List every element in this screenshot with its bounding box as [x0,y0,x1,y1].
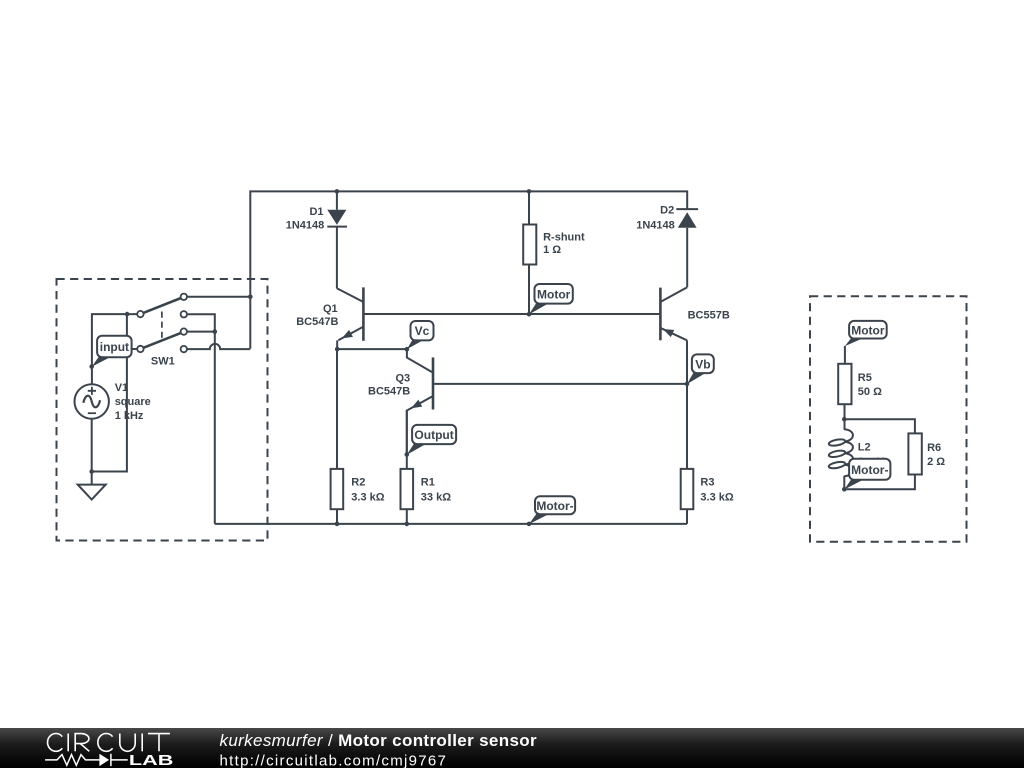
svg-text:D1: D1 [309,206,323,218]
wire R6 bottom to Motor- node [844,475,915,490]
node throw3 junction [213,329,218,334]
node Output [405,452,410,457]
wire D1 cathode to Q1 collector [336,227,338,289]
wire Q3 emitter to Output node to R1 [406,410,408,469]
svg-text:Motor: Motor [537,287,571,301]
wire Q2 emitter to Vb node [686,340,688,384]
svg-text:1 Ω: 1 Ω [543,244,561,256]
node R1 bottom [405,522,410,527]
diode D1 [327,210,347,227]
wire Vc node to R2 [336,349,338,469]
svg-text:R-shunt: R-shunt [543,231,585,243]
svg-text:1N4148: 1N4148 [286,219,325,231]
dashed enclosure right (motor model) [810,296,967,541]
resistor R5 [838,364,851,404]
flag Output [407,425,456,455]
node throw1 riser [248,295,253,300]
svg-text:Motor-: Motor- [851,463,888,477]
svg-text:LAB: LAB [129,752,174,768]
svg-text:Output: Output [414,428,453,442]
wire pole 2 stub [127,348,137,350]
wire throw 4 with hop over crossing [187,344,250,349]
transistor Q3 BC547B [407,349,433,454]
wire base rail Q1-Q2 [363,313,660,315]
wire throw 2 down to bottom rail [187,314,215,524]
wire Motor flag to R5 [844,346,846,364]
node Motor (R-shunt bottom) [527,312,532,317]
transistor Q1 BC547B [337,287,364,340]
svg-text:1 kHz: 1 kHz [115,410,144,422]
footer bar [0,728,1024,768]
node Vb [685,382,690,387]
wire Vb node to R3 [686,384,688,469]
svg-text:BC547B: BC547B [296,316,338,328]
svg-text:Q3: Q3 [396,372,411,384]
svg-text:Q1: Q1 [323,303,338,315]
flag Motor- (bottom rail) [529,496,575,524]
node Q1 emitter [335,347,340,352]
svg-text:Motor-: Motor- [536,499,573,513]
svg-text:square: square [115,396,151,408]
resistor R2 [331,469,344,509]
wire Q1 emitter to Vc node [337,340,407,349]
flag Motor- (right box) [844,459,890,490]
footer logo CIRCUIT [48,734,170,752]
wire V1 minus loop to pole 2 [92,314,127,471]
wire R-shunt bottom to Motor node [528,265,530,315]
node R5/L2/R6 top [842,417,847,422]
wire R2 bottom stub [336,509,338,524]
svg-text:R2: R2 [351,476,365,488]
svg-text:3.3 kΩ: 3.3 kΩ [700,492,733,504]
wire L2 bottom stub [843,476,845,490]
node V1 minus / ground [89,469,94,474]
diode D2 [676,209,698,228]
svg-text:R3: R3 [700,476,714,488]
svg-text:BC547B: BC547B [368,386,410,398]
svg-text:V1: V1 [115,382,128,394]
svg-text:input: input [100,340,129,354]
svg-text:Motor: Motor [851,323,885,337]
node top rail / R-shunt [527,189,532,194]
transistor Q2 BC557B [660,287,687,340]
dashed enclosure left (input stage) [57,279,268,541]
switch SW1 [137,294,187,353]
wire R3 bottom stub [686,509,688,524]
node input flag attach [89,364,94,369]
wire R5 to L2 node [844,404,846,430]
svg-text:Vb: Vb [695,357,710,371]
svg-text:D2: D2 [660,204,674,216]
wire throw 3 stub [187,331,215,333]
wire R-shunt top stub [528,191,530,224]
resistor R3 [681,469,694,509]
svg-text:R5: R5 [858,372,872,384]
svg-text:1N4148: 1N4148 [636,220,675,232]
wire L2 node branch to R6 top [844,419,915,433]
flag input [92,336,132,367]
wire bottom rail Motor- [215,523,687,525]
svg-text:R1: R1 [421,476,435,488]
flag Motor (R-shunt) [529,284,573,314]
node top rail / D1 [335,189,340,194]
inductor L2 [828,429,853,476]
ground [78,485,106,500]
svg-text:BC557B: BC557B [688,309,730,321]
wire V1 minus to ground node [91,419,93,485]
svg-text:kurkesmurfer / Motor controlle: kurkesmurfer / Motor controller sensor [220,731,538,750]
resistor R1 [401,469,414,509]
resistor R-shunt [523,225,536,265]
node L2/R6 bottom Motor- [842,487,847,492]
svg-text:33 kΩ: 33 kΩ [421,492,451,504]
flag Vb [687,354,714,384]
node Motor- flag attach [527,522,532,527]
svg-text:3.3 kΩ: 3.3 kΩ [351,492,384,504]
svg-text:SW1: SW1 [151,355,175,367]
node R2 bottom [335,522,340,527]
resistor R6 [908,433,921,474]
flag Motor (right box) [845,321,887,346]
wire D2 cathode to Q2 collector [686,228,688,287]
wire top rail [250,191,687,348]
node Vc [405,347,410,352]
footer logo resistor-diode glyph [45,754,128,766]
svg-text:50 Ω: 50 Ω [858,386,882,398]
wire Q3 base to Vb node [434,383,687,385]
wire R1 bottom stub [406,509,408,524]
wire throw 1 to top rail riser [187,296,250,298]
wire D1 anode stub [336,191,338,209]
node pole feed junction [125,312,130,317]
svg-text:2 Ω: 2 Ω [927,456,945,468]
svg-text:Vc: Vc [415,324,430,338]
wire V1 plus to switch pole 1 [92,314,137,384]
svg-text:L2: L2 [858,442,871,454]
svg-text:R6: R6 [927,442,941,454]
voltage source V1 [75,384,109,418]
flag Vc [407,321,434,349]
svg-text:http://circuitlab.com/cmj9767: http://circuitlab.com/cmj9767 [220,752,446,768]
